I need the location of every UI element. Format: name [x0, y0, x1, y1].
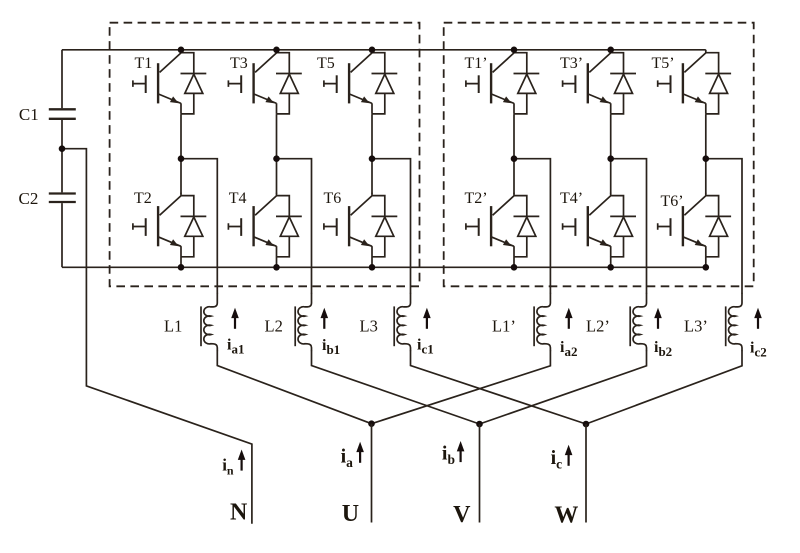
current arrow i_c2: [754, 308, 762, 329]
transistor T5p (IGBT with antiparallel diode): [658, 50, 731, 114]
current arrow i_a: [356, 442, 364, 463]
svg-text:U: U: [342, 501, 359, 527]
current arrow i_c1: [423, 308, 431, 329]
wire: phase midpoint to T6 collector: [371, 159, 373, 194]
wire: inductor L1p output to node U: [372, 351, 551, 424]
transistor T2 (IGBT with antiparallel diode): [133, 193, 206, 257]
wire: T2p emitter to bottom bus: [513, 257, 515, 268]
svg-text:T3’: T3’: [560, 55, 583, 72]
svg-text:L1: L1: [164, 317, 182, 336]
svg-text:T1’: T1’: [465, 55, 488, 72]
wire: T3p emitter to phase midpoint: [610, 114, 612, 159]
inductor L1: [201, 293, 217, 351]
wire: phase midpoint to inductor L3: [372, 159, 411, 294]
junction: phase midpoint L2: [273, 155, 280, 162]
current arrow i_c: [565, 445, 573, 466]
wire: T4p emitter to bottom bus: [610, 257, 612, 268]
current arrow i_b2: [654, 308, 662, 329]
junction: phase midpoint L3p: [703, 155, 710, 162]
transistor T4 (IGBT with antiparallel diode): [228, 193, 301, 257]
svg-text:T1: T1: [135, 55, 153, 72]
wire: phase midpoint to inductor L1p: [514, 159, 550, 294]
wire: T5p emitter to phase midpoint: [705, 114, 707, 159]
inductor L1p: [534, 293, 550, 351]
wire: T6 emitter to bottom bus: [371, 257, 373, 268]
junction: T2 bottom on DC bus: [178, 264, 185, 271]
transistor T6 (IGBT with antiparallel diode): [324, 193, 397, 257]
transistor T6p (IGBT with antiparallel diode): [658, 193, 731, 257]
current arrow i_b1: [321, 308, 329, 329]
transistor T1p (IGBT with antiparallel diode): [466, 50, 539, 114]
wire: T1p emitter to phase midpoint: [513, 114, 515, 159]
wire: phase midpoint to T2 collector: [180, 159, 182, 194]
wire: DC-link left rail: [61, 50, 63, 267]
svg-text:T6’: T6’: [661, 193, 684, 210]
wire: phase midpoint to T6p collector: [705, 159, 707, 194]
junction: T3p top on DC bus: [607, 47, 614, 54]
junction: T5 top on DC bus: [369, 47, 376, 54]
inductor L2: [295, 293, 311, 351]
junction: phase midpoint L1: [178, 155, 185, 162]
current arrow i_a2: [565, 308, 573, 329]
wire: bottom DC bus: [62, 266, 706, 268]
svg-text:L1’: L1’: [492, 317, 516, 336]
wire: phase midpoint to T4p collector: [610, 159, 612, 194]
transistor T2p (IGBT with antiparallel diode): [466, 193, 539, 257]
dashed box: inverter 1: [110, 23, 420, 287]
current arrow i_n: [238, 450, 246, 471]
junction: T3 top on DC bus: [273, 47, 280, 54]
wire: U output bus: [371, 424, 373, 523]
wire: phase midpoint to inductor L2p: [611, 159, 647, 294]
transistor T5 (IGBT with antiparallel diode): [324, 50, 397, 114]
capacitor C1: [49, 109, 76, 119]
svg-text:T2’: T2’: [465, 190, 488, 207]
svg-text:L3’: L3’: [684, 317, 708, 336]
current arrow i_a1: [231, 308, 239, 329]
svg-text:L2: L2: [265, 317, 283, 336]
wire: inductor L2p output to node V: [480, 351, 647, 425]
svg-text:C2: C2: [19, 189, 39, 208]
junction: T1p top on DC bus: [511, 47, 518, 54]
wire: neutral from capacitor midpoint to terminal N: [62, 149, 252, 524]
svg-text:L3: L3: [360, 317, 378, 336]
svg-text:L2’: L2’: [586, 317, 610, 336]
svg-text:T3: T3: [230, 55, 248, 72]
wire: T6p emitter to bottom bus: [705, 257, 707, 268]
svg-text:V: V: [453, 502, 471, 528]
wire: W output bus: [585, 424, 587, 523]
junction: T6 bottom on DC bus: [369, 264, 376, 271]
svg-text:C1: C1: [19, 105, 39, 124]
wire: phase midpoint to T4 collector: [276, 159, 278, 194]
inductor L3: [394, 293, 410, 351]
wire: inductor L2 output to node V: [312, 351, 480, 425]
svg-text:N: N: [230, 500, 248, 526]
junction: phase midpoint L3: [369, 155, 376, 162]
svg-text:T4: T4: [229, 190, 247, 207]
junction: node V: [476, 421, 483, 428]
junction: T1 top on DC bus: [178, 47, 185, 54]
wire: inductor L1 output to node U: [217, 351, 371, 424]
inductor L3p: [726, 293, 742, 351]
junction: capacitor midpoint: [59, 145, 66, 152]
junction: phase midpoint L2p: [607, 155, 614, 162]
svg-text:T4’: T4’: [560, 190, 583, 207]
wire: inductor L3p output to node W: [586, 351, 742, 425]
svg-text:T5’: T5’: [652, 55, 675, 72]
wire: phase midpoint to inductor L2: [277, 159, 312, 294]
transistor T3p (IGBT with antiparallel diode): [563, 50, 636, 114]
junction: node U: [368, 420, 375, 427]
wire: T2 emitter to bottom bus: [180, 257, 182, 268]
junction: phase midpoint L1p: [511, 155, 518, 162]
junction: T2p bottom on DC bus: [511, 264, 518, 271]
wire: phase midpoint to inductor L1: [181, 159, 217, 294]
capacitor C2: [49, 194, 76, 203]
svg-text:W: W: [554, 503, 578, 529]
wire: phase midpoint to inductor L3p: [706, 159, 742, 294]
wire: top DC bus: [62, 49, 706, 51]
wire: T3 emitter to phase midpoint: [276, 114, 278, 159]
wire: V output bus: [479, 424, 481, 523]
inductor L2p: [630, 293, 646, 351]
dashed box: inverter 2: [444, 23, 754, 287]
svg-text:T5: T5: [317, 55, 335, 72]
wire: T1 emitter to phase midpoint: [180, 114, 182, 159]
junction: T4 bottom on DC bus: [273, 264, 280, 271]
junction: T6p bottom on DC bus: [703, 264, 710, 271]
transistor T3 (IGBT with antiparallel diode): [228, 50, 301, 114]
transistor T1 (IGBT with antiparallel diode): [133, 50, 206, 114]
junction: node W: [583, 421, 590, 428]
current arrow i_b: [457, 441, 465, 462]
wire: T5 emitter to phase midpoint: [371, 114, 373, 159]
transistor T4p (IGBT with antiparallel diode): [563, 193, 636, 257]
wire: inductor L3 output to node W: [411, 351, 587, 425]
junction: T4p bottom on DC bus: [607, 264, 614, 271]
wire: phase midpoint to T2p collector: [513, 159, 515, 194]
wire: T4 emitter to bottom bus: [276, 257, 278, 268]
svg-text:T6: T6: [324, 190, 342, 207]
svg-text:T2: T2: [134, 190, 152, 207]
